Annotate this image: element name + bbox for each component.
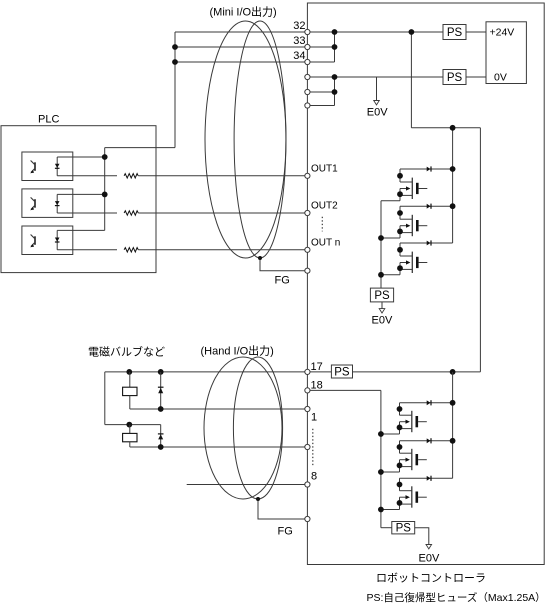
junction: common bus / PC1 xyxy=(102,154,108,160)
fuse PS4 (PS box) xyxy=(392,522,415,535)
svg-text:PS: PS xyxy=(396,523,412,535)
terminal pin 34 xyxy=(305,59,310,64)
junction: shield tap on cable W1 xyxy=(258,256,262,260)
fuse PS1 (PS box) xyxy=(443,25,466,40)
fuse PS3 (PS box) xyxy=(331,365,352,379)
junction: source bus / Q4 xyxy=(378,431,384,437)
wire: opto PC3 anode lead xyxy=(57,229,104,231)
wire: Hand I/O source bus xyxy=(380,390,382,527)
wire: pin 8 line through cable xyxy=(187,484,308,486)
terminal pin FG top xyxy=(305,268,310,273)
svg-text:32: 32 xyxy=(293,20,305,32)
transistor Q2 (N-ch MOSFET open-drain output) xyxy=(381,206,427,238)
wire: +24V long drop to Hand I/O section xyxy=(479,128,481,372)
wire: opto PC1 anode lead xyxy=(57,156,104,158)
junction: source bus / Q3 xyxy=(378,272,384,278)
junction: line17 / coil V1 xyxy=(126,369,132,375)
wire: PS1 to +24V terminal xyxy=(466,31,486,33)
wire: bottom cable shield to FG pin xyxy=(258,499,307,519)
junction: source bus / Q2 xyxy=(378,235,384,241)
wire: +24V line pin32 to PS1 xyxy=(307,31,443,33)
terminal pin 0V b xyxy=(305,89,310,94)
wire: pin34 stub xyxy=(307,61,334,63)
terminal pin 1 xyxy=(305,406,310,411)
fuse PS2 (PS box) xyxy=(443,70,466,85)
terminal pin OUT2 xyxy=(305,210,310,215)
junction: rail / horizontal xyxy=(450,125,456,131)
wire: pin18 to source bus xyxy=(307,389,381,391)
fuse PS5 (PS box) xyxy=(370,288,393,302)
wire: 0V pin stub b xyxy=(307,105,334,107)
wire: PS2 to 0V terminal xyxy=(466,76,486,78)
svg-text:(Hand I/O出力): (Hand I/O出力) xyxy=(201,344,274,358)
terminal pin 32 xyxy=(305,29,310,34)
svg-text:PS:自己復帰型ヒューズ（Max1.25A）: PS:自己復帰型ヒューズ（Max1.25A） xyxy=(367,591,546,604)
svg-text:8: 8 xyxy=(311,471,317,483)
wire: 0V line to PS2 xyxy=(307,76,443,78)
dots: OUT2..OUTn continuation (top) xyxy=(321,217,323,232)
svg-text:0V: 0V xyxy=(494,72,507,84)
wire: pin34 line outside xyxy=(175,61,307,63)
wire: PC2 cathode to resistor R2 xyxy=(57,212,117,214)
cable shield oval W2 outer ellipse xyxy=(204,357,282,499)
junction: riser / pin34 line xyxy=(172,59,178,65)
resistor R2 (PLC output series resistor) xyxy=(124,211,138,215)
wire: source bus down to PS5 xyxy=(380,201,382,288)
optocoupler PC3 (PLC output) xyxy=(22,226,73,255)
wire: PC3 cathode to resistor R3 xyxy=(57,249,117,251)
wire: valve2 return to mid pin xyxy=(130,446,308,448)
junction: valve2 return / D2 xyxy=(158,444,164,450)
transistor Q4 (N-ch MOSFET open-drain output) xyxy=(381,403,427,434)
optocoupler PC1 (PLC output) xyxy=(22,152,73,181)
PLC enclosure box xyxy=(1,126,156,273)
terminal pin OUT1 xyxy=(305,173,310,178)
cable shield oval W1 outer ellipse xyxy=(205,21,286,258)
svg-text:PS: PS xyxy=(447,72,463,84)
junction: valve2 lead / coil V2 xyxy=(126,422,132,428)
svg-text:18: 18 xyxy=(311,380,323,392)
ground E0V branch (Hand I/O sources) xyxy=(415,528,440,565)
robot controller enclosure box xyxy=(307,3,544,565)
junction: tie bar / pin32 xyxy=(332,29,338,35)
svg-text:E0V: E0V xyxy=(367,107,388,119)
ground E0V branch (top) xyxy=(367,77,388,119)
solenoid coil V1 xyxy=(123,372,137,409)
wire: +24V rail (Hand I/O outputs) xyxy=(452,372,454,478)
optocoupler PC2 (PLC output) xyxy=(22,189,73,218)
diode D2 (flyback across V2) xyxy=(158,425,164,447)
wire: +24V line 17 to valves xyxy=(105,371,308,373)
svg-text:OUT n: OUT n xyxy=(311,238,340,249)
junction: shield tap on cable W2 xyxy=(256,497,260,501)
terminal pin 18 xyxy=(305,388,310,393)
transistor Q1 (N-ch MOSFET open-drain output) xyxy=(381,169,427,201)
wire: valve 2 top lead xyxy=(105,424,161,426)
wire: drain lead of Q2 to +24V rail with diode xyxy=(400,203,456,209)
wire: 0V pin stub a xyxy=(307,91,334,93)
svg-text:17: 17 xyxy=(311,361,323,373)
wire: drain lead of Q3 to +24V rail with diode xyxy=(400,240,453,245)
power supply terminal box (+24V / 0V) xyxy=(486,22,526,84)
wire: drain lead of Q6 to +24V rail with diode xyxy=(400,476,453,481)
terminal pin 33 xyxy=(305,44,310,49)
svg-text:OUT1: OUT1 xyxy=(311,164,338,175)
terminal pin 8 xyxy=(305,482,310,487)
wire: valve1 return to pin 1 xyxy=(130,408,308,410)
svg-text:1: 1 xyxy=(311,412,317,424)
wire: opto PC2 anode lead xyxy=(57,193,104,195)
junction: tie bar / pin33 xyxy=(332,44,338,50)
junction: pin32 line / +24V drop xyxy=(409,29,415,35)
junction: riser / pin33 line xyxy=(172,44,178,50)
wire: +24V common riser (PLC to pins 32-34) xyxy=(174,32,176,148)
wire: OUT1 line to pin xyxy=(138,175,307,177)
svg-text:電磁バルブなど: 電磁バルブなど xyxy=(88,345,165,359)
terminal pin 0V a xyxy=(305,74,310,79)
wire: OUTn line to pin xyxy=(138,249,307,251)
terminal pin 17 xyxy=(305,369,310,374)
dots: pins 1..8 continuation (bottom) xyxy=(312,429,314,467)
svg-text:PS: PS xyxy=(374,290,390,302)
wire: PS3 to +24V drop xyxy=(353,371,481,373)
resistor R3 (PLC output series resistor) xyxy=(124,248,138,252)
terminal pin mid (2..7) xyxy=(305,444,310,449)
terminal pin 0V c xyxy=(305,103,310,108)
wire: PC1 cathode to resistor R1 xyxy=(57,175,117,177)
junction: source bus / Q5 xyxy=(378,469,384,475)
wire: PLC common bus horizontal xyxy=(105,147,175,149)
svg-text:PS: PS xyxy=(447,27,463,39)
svg-text:FG: FG xyxy=(275,275,290,287)
transistor Q3 (N-ch MOSFET open-drain output) xyxy=(381,243,427,275)
svg-text:34: 34 xyxy=(293,50,305,62)
wire: +24V horizontal to right drop xyxy=(411,127,480,129)
terminal pin OUTn xyxy=(305,247,310,252)
svg-text:E0V: E0V xyxy=(419,553,440,565)
wire: OUT2 line to pin xyxy=(138,212,307,214)
junction: source bus / Q6 xyxy=(378,507,384,513)
wire: pins 32-34 tie bar xyxy=(334,32,336,62)
junction: line17 / diode D1 xyxy=(158,369,164,375)
resistor R1 (PLC output series resistor) xyxy=(124,174,138,178)
svg-text:PS: PS xyxy=(334,367,350,379)
wire: drain lead of Q1 to +24V rail with diode xyxy=(400,166,456,172)
cable shield oval W2 inner ellipse xyxy=(233,357,282,499)
wire: 0V pins tie bar xyxy=(334,77,336,106)
svg-text:33: 33 xyxy=(293,35,305,47)
wire: pin17 to PS3 xyxy=(307,371,331,373)
wire: +24V rail (Mini I/O outputs) xyxy=(452,128,454,243)
junction: valve1 return / D1 xyxy=(158,406,164,412)
transistor Q6 (N-ch MOSFET open-drain output) xyxy=(381,478,427,509)
svg-text:(Mini I/O出力): (Mini I/O出力) xyxy=(210,5,277,19)
wire: pin33 line outside xyxy=(175,46,307,48)
svg-text:+24V: +24V xyxy=(490,27,515,39)
junction: 0V tie / 0V line xyxy=(332,74,338,80)
wire: pin33 stub xyxy=(307,46,334,48)
solenoid coil V2 xyxy=(123,425,137,447)
wire: drain lead of Q4 to +24V rail with diode xyxy=(400,400,456,406)
wire: top cable shield to FG pin xyxy=(260,258,307,271)
wire: drain lead of Q5 to +24V rail with diode xyxy=(400,438,456,444)
terminal pin FG bottom xyxy=(305,516,310,521)
svg-text:ロボットコントローラ: ロボットコントローラ xyxy=(376,572,486,585)
diode D1 (flyback across V1) xyxy=(158,372,164,409)
cable shield oval W1 inner ellipse xyxy=(234,21,286,258)
svg-text:E0V: E0V xyxy=(372,315,393,327)
wire: valve supply left riser xyxy=(104,372,106,425)
junction: 0V tie / stub a xyxy=(332,89,338,95)
wire: +24V drop from pin32 line xyxy=(410,32,412,128)
wire: source bus into PS4 xyxy=(381,527,392,529)
svg-text:PLC: PLC xyxy=(38,114,59,126)
svg-text:FG: FG xyxy=(278,526,293,538)
junction: common bus / PC2 xyxy=(102,192,108,198)
ground E0V branch (Mini I/O sources) xyxy=(372,302,393,327)
svg-text:OUT2: OUT2 xyxy=(311,201,338,212)
transistor Q5 (N-ch MOSFET open-drain output) xyxy=(381,441,427,472)
junction: hand rail / +24V feed xyxy=(450,369,456,375)
wire: PLC common bus vertical xyxy=(104,148,106,231)
wire: pin32 line outside xyxy=(175,31,307,33)
